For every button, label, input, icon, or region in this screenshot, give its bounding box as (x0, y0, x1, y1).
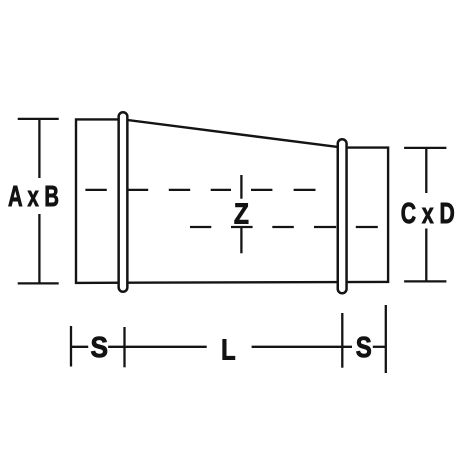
svg-text:S: S (356, 332, 372, 364)
svg-text:A x B: A x B (8, 181, 59, 213)
svg-text:L: L (221, 335, 236, 367)
svg-text:S: S (91, 332, 109, 364)
svg-text:C x D: C x D (401, 198, 455, 230)
svg-text:Z: Z (234, 198, 249, 230)
